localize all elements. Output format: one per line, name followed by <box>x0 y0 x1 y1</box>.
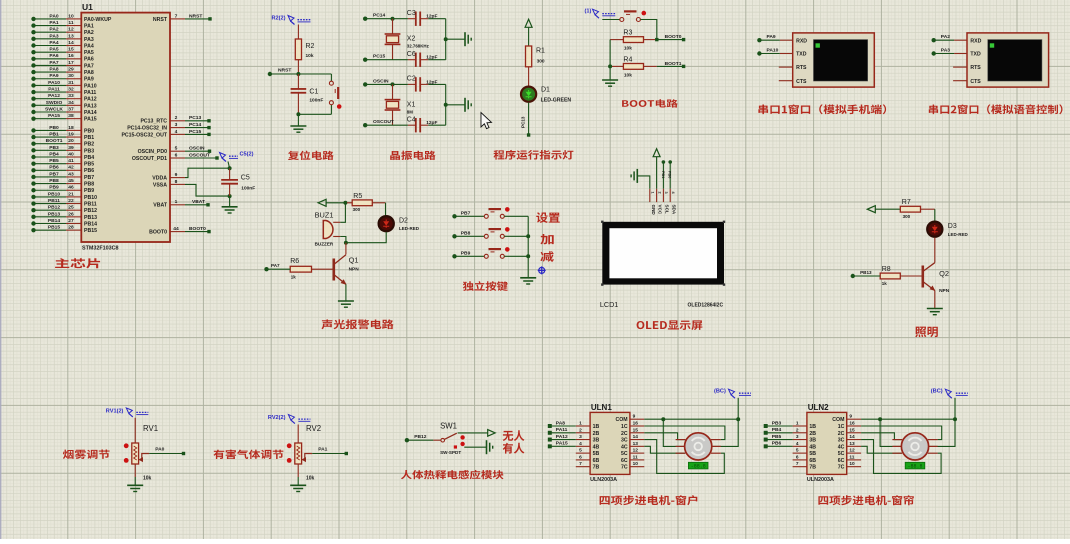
wire PB4 <box>766 432 793 434</box>
svg-text:PC15-OSC32_OUT: PC15-OSC32_OUT <box>121 132 167 138</box>
pin 44 BOOT0 <box>170 231 185 233</box>
svg-text:38: 38 <box>68 113 74 119</box>
wire PB6 <box>766 445 793 447</box>
svg-text:PA12: PA12 <box>84 97 97 103</box>
svg-text:NRST: NRST <box>278 68 291 74</box>
svg-text:OSCIN_PD0: OSCIN_PD0 <box>138 149 168 155</box>
wire 2C to motor <box>861 433 902 440</box>
wire SW1 person to ground <box>464 446 486 448</box>
svg-text:OSCOUT_PD1: OSCOUT_PD1 <box>132 156 167 162</box>
svg-text:PB9: PB9 <box>49 185 59 191</box>
blue origin marker <box>539 267 545 273</box>
resistor R2 <box>297 25 299 40</box>
diode D1 LED-GREEN <box>521 87 536 102</box>
svg-text:C1: C1 <box>309 89 318 96</box>
blue wire label C5(2) <box>220 153 226 159</box>
label 晶振电路 <box>390 151 435 160</box>
wire PA15 <box>550 445 576 447</box>
wire PA8 <box>550 425 576 427</box>
wire + node PA5 (pin 15) <box>31 50 35 54</box>
wire BC to COM <box>954 398 956 419</box>
wire + node PB0 (pin 18) <box>31 128 35 132</box>
wire PA9 <box>757 38 761 42</box>
svg-text:ULN1: ULN1 <box>591 403 612 412</box>
svg-text:RV1(2): RV1(2) <box>106 408 124 414</box>
wire BOOT0 <box>185 231 209 233</box>
svg-text:45: 45 <box>68 178 74 184</box>
ground (rotated right) <box>464 32 466 46</box>
svg-text:40: 40 <box>68 151 74 157</box>
svg-text:BUZ1: BUZ1 <box>315 211 334 220</box>
svg-text:3: 3 <box>664 192 668 194</box>
svg-text:R6: R6 <box>290 258 299 265</box>
svg-text:37: 37 <box>68 106 74 112</box>
svg-text:300: 300 <box>903 214 911 219</box>
ULN2 pin 12 (right) <box>847 452 861 454</box>
svg-text:21: 21 <box>68 191 74 197</box>
ground (keys) <box>520 277 536 279</box>
svg-text:U1: U1 <box>82 2 93 12</box>
label 声光报警电路 <box>321 319 393 329</box>
wire COM right to motor <box>712 419 739 446</box>
svg-text:OLED12864I2C: OLED12864I2C <box>688 303 724 309</box>
svg-text:PB10: PB10 <box>48 191 61 197</box>
svg-text:3B: 3B <box>809 438 816 444</box>
node terminal PC15 <box>363 58 367 62</box>
ULN1 pin 14 (right) <box>630 439 644 441</box>
svg-text:1: 1 <box>579 421 582 427</box>
button PB7 red dot <box>505 207 510 212</box>
wire + node PA10 (pin 31) <box>31 83 35 87</box>
svg-text:PA1: PA1 <box>84 23 94 29</box>
svg-text:LED-RED: LED-RED <box>948 232 969 237</box>
svg-text:PA5: PA5 <box>49 47 58 53</box>
svg-text:BOOT0: BOOT0 <box>665 34 682 40</box>
wire COM left to motor <box>663 419 685 446</box>
svg-text:4B: 4B <box>809 444 816 450</box>
label 有人 <box>503 443 525 454</box>
svg-text:PB11: PB11 <box>84 201 97 207</box>
svg-text:17: 17 <box>68 60 74 66</box>
node terminal PB7 <box>452 214 456 218</box>
svg-text:5C: 5C <box>838 451 845 457</box>
SW1 red dot bottom <box>460 442 464 446</box>
svg-text:-88.8: -88.8 <box>691 464 706 470</box>
label 加 <box>540 234 553 244</box>
svg-text:300: 300 <box>537 59 545 65</box>
node terminal BOOT0 <box>682 38 685 41</box>
svg-text:2: 2 <box>657 192 661 194</box>
svg-text:VDDA: VDDA <box>152 176 167 182</box>
svg-text:12pF: 12pF <box>426 79 437 85</box>
svg-text:D1: D1 <box>541 87 550 94</box>
svg-text:X2: X2 <box>407 36 416 43</box>
svg-text:PA8: PA8 <box>556 420 565 426</box>
wire + node PA6 (pin 16) <box>31 57 35 61</box>
wire COM supply <box>861 418 955 420</box>
svg-text:PC14: PC14 <box>373 13 386 19</box>
svg-text:PB7: PB7 <box>84 175 94 181</box>
svg-text:PB6: PB6 <box>84 168 94 174</box>
RV1 red dot up <box>124 443 129 448</box>
svg-text:16: 16 <box>68 53 74 59</box>
wire + node PA12 (pin 33) <box>31 97 35 101</box>
wire keys bus <box>527 216 529 277</box>
wire PA11 <box>550 432 576 434</box>
svg-text:13: 13 <box>849 441 855 447</box>
label 独立按键 <box>463 281 508 291</box>
ground (rotated right) <box>464 98 466 112</box>
ULN1 pin 3 (left) <box>576 439 590 441</box>
svg-text:3B: 3B <box>593 438 600 444</box>
ULN2 pin 10 (right) <box>847 466 861 468</box>
stepper motor angle display <box>688 462 708 469</box>
ULN2 pin 7 (left) <box>793 466 807 468</box>
svg-text:19: 19 <box>68 131 74 137</box>
svg-text:PA14: PA14 <box>84 110 97 116</box>
svg-text:COM: COM <box>615 417 627 423</box>
label 四项步进电机-窗户 <box>600 495 698 505</box>
wire OSCOUT_PD1 <box>185 157 217 159</box>
resistor R8 <box>880 273 900 279</box>
node junction COM left <box>878 417 882 421</box>
wire R1 to D1 <box>528 67 530 86</box>
pin 2 PC13_RTC <box>170 120 185 122</box>
pin RTS stub <box>953 66 967 68</box>
svg-text:3: 3 <box>796 434 799 440</box>
svg-text:1B: 1B <box>593 424 600 430</box>
wire PC14 row <box>365 18 408 20</box>
svg-text:14: 14 <box>68 40 74 46</box>
svg-text:R3: R3 <box>623 30 632 37</box>
svg-text:5B: 5B <box>809 451 816 457</box>
node terminal PB4 <box>764 431 768 435</box>
svg-text:PA6: PA6 <box>49 53 58 59</box>
capacitor C6 <box>415 53 417 67</box>
svg-text:9: 9 <box>175 172 178 178</box>
node junction R5 left <box>343 201 347 205</box>
wire + node PA4 (pin 14) <box>31 43 35 47</box>
label OLED显示屏 <box>637 320 703 330</box>
resistor R6 <box>290 266 311 272</box>
crystal X2 <box>392 19 394 34</box>
svg-text:4: 4 <box>796 441 799 447</box>
svg-text:RXD: RXD <box>796 38 807 44</box>
svg-text:3: 3 <box>175 122 178 128</box>
label 设置 <box>536 212 560 223</box>
wire PA12 <box>550 439 576 441</box>
transistor Q2 <box>923 263 935 272</box>
svg-text:SW1: SW1 <box>440 422 457 431</box>
svg-text:15: 15 <box>68 47 74 53</box>
svg-text:VBAT: VBAT <box>153 203 168 209</box>
RV1 bottom lead <box>134 464 136 477</box>
svg-text:6B: 6B <box>809 458 816 464</box>
diode D2 LED-RED <box>379 216 394 231</box>
wire left bus R3-R4 <box>609 40 611 80</box>
wire 1C to motor <box>861 426 942 440</box>
mouse cursor <box>481 113 492 129</box>
stepper motor angle display <box>905 462 925 469</box>
svg-text:X1: X1 <box>407 101 416 108</box>
svg-text:C3: C3 <box>407 10 416 17</box>
svg-text:12pF: 12pF <box>426 120 437 126</box>
svg-text:PA0: PA0 <box>155 447 164 453</box>
node terminal PB3 <box>764 424 768 428</box>
svg-text:R2(2): R2(2) <box>272 15 286 21</box>
wire COM supply <box>644 418 738 420</box>
svg-text:16: 16 <box>849 421 855 427</box>
wire arrow to R5 <box>326 202 347 204</box>
svg-text:VBAT: VBAT <box>192 199 205 205</box>
svg-text:11: 11 <box>68 20 73 26</box>
wire right vertical <box>445 84 447 125</box>
svg-text:PA10: PA10 <box>84 83 97 89</box>
wire BOOT0 <box>657 39 684 41</box>
svg-text:GND: GND <box>651 205 656 216</box>
svg-text:6B: 6B <box>593 458 600 464</box>
virtual terminal body <box>967 33 1049 87</box>
node terminal OSCOUT <box>363 123 367 127</box>
svg-text:PB15: PB15 <box>84 228 97 234</box>
resistor R4 <box>610 65 623 67</box>
node terminal PC14 <box>363 17 367 21</box>
ULN2 pin 16 (right) <box>847 425 861 427</box>
svg-text:2: 2 <box>796 427 799 433</box>
svg-text:PA10: PA10 <box>767 48 779 54</box>
ground (SW1, rotated right) <box>486 440 488 454</box>
capacitor C4 <box>415 118 417 132</box>
label 复位电路 <box>288 151 334 160</box>
svg-text:BOOT1: BOOT1 <box>46 138 63 144</box>
node NRST terminal <box>268 72 272 76</box>
wire + node PB6 (pin 42) <box>31 168 35 172</box>
svg-text:1C: 1C <box>621 424 628 430</box>
svg-text:NPN: NPN <box>349 267 360 273</box>
wire + node PB7 (pin 43) <box>31 175 35 179</box>
wire + node PA3 (pin 13) <box>31 37 35 41</box>
wire PC13_RTC <box>185 120 209 122</box>
svg-text:2C: 2C <box>621 431 628 437</box>
ULN1 pin 4 (left) <box>576 445 590 447</box>
ULN2 pin 3 (left) <box>793 439 807 441</box>
svg-text:RV2(2): RV2(2) <box>268 415 286 421</box>
terminal screen <box>814 40 868 81</box>
svg-text:PA11: PA11 <box>556 427 568 433</box>
wire button right to R3 <box>640 20 656 40</box>
pin 3 PC14-OSC32_IN <box>170 127 185 129</box>
svg-text:1: 1 <box>651 192 655 194</box>
svg-text:LED-GREEN: LED-GREEN <box>541 97 572 103</box>
svg-text:PA12: PA12 <box>48 93 60 99</box>
svg-text:PA1: PA1 <box>318 447 327 453</box>
svg-text:5: 5 <box>175 146 178 152</box>
svg-text:PB13: PB13 <box>860 270 872 275</box>
wire key PB7 to bus <box>504 215 528 217</box>
svg-text:PB1: PB1 <box>84 135 94 141</box>
resistor R1 <box>526 46 532 67</box>
svg-text:7: 7 <box>579 461 582 467</box>
wire + node PB13 (pin 26) <box>31 215 35 219</box>
svg-text:R1: R1 <box>536 48 545 55</box>
wire OSCIN row <box>365 83 408 85</box>
RV2 red dot up <box>287 443 292 448</box>
ULN2 pin 11 (right) <box>847 459 861 461</box>
svg-text:PA8: PA8 <box>49 67 58 73</box>
svg-text:7B: 7B <box>809 465 816 471</box>
svg-text:OSCIN: OSCIN <box>189 146 205 152</box>
pin 1 VBAT <box>170 204 185 206</box>
svg-text:CTS: CTS <box>796 79 807 85</box>
wire C5 to ground <box>229 196 231 207</box>
node junction X2 top <box>391 17 395 21</box>
svg-text:R5: R5 <box>353 193 362 200</box>
svg-text:PA8: PA8 <box>84 70 94 76</box>
wire + node PB3 (pin 39) <box>31 148 35 152</box>
svg-text:RXD: RXD <box>970 38 981 44</box>
svg-text:5C: 5C <box>621 451 628 457</box>
svg-text:300: 300 <box>353 207 361 212</box>
resistor R7 <box>900 206 920 212</box>
svg-text:100nF: 100nF <box>241 186 255 192</box>
RV1 red dot down <box>124 458 129 463</box>
svg-text:PB5: PB5 <box>84 162 94 168</box>
svg-text:PA2: PA2 <box>941 34 950 40</box>
label 人体热释电感应模块 <box>401 470 504 479</box>
node SDA dot <box>668 160 672 164</box>
terminal screen <box>988 40 1042 81</box>
svg-text:PB4: PB4 <box>84 155 94 161</box>
ULN1 pin 7 (left) <box>576 466 590 468</box>
svg-text:PC13_RTC: PC13_RTC <box>140 119 167 125</box>
wire + node PB10 (pin 21) <box>31 195 35 199</box>
button PB9 <box>483 255 485 257</box>
ULN1 pin 13 (right) <box>630 445 644 447</box>
wire + node PA9 (pin 30) <box>31 77 35 81</box>
svg-text:32.768KHz: 32.768KHz <box>407 44 430 49</box>
node junction R2/C1 <box>296 72 300 76</box>
wire key PB9 to bus <box>504 255 528 257</box>
wire D2 bottom row <box>346 232 386 243</box>
buzzer pins <box>333 221 340 223</box>
svg-text:39: 39 <box>68 145 74 151</box>
wire + node BOOT1 (pin 20) <box>31 142 35 146</box>
button reset <box>330 74 332 81</box>
svg-text:34: 34 <box>68 100 74 106</box>
svg-text:PB12: PB12 <box>414 434 427 440</box>
svg-text:PA9: PA9 <box>84 77 94 83</box>
svg-text:1: 1 <box>175 199 178 205</box>
svg-text:PB7: PB7 <box>49 171 59 177</box>
node terminal PB13 <box>851 274 855 278</box>
wire + node PA8 (pin 29) <box>31 70 35 74</box>
RV2 wiper <box>301 457 306 462</box>
RV2 bottom lead <box>297 464 299 477</box>
ground (reset) <box>290 125 306 127</box>
wire NRST <box>185 18 210 20</box>
wire PA2 <box>932 38 936 42</box>
svg-text:PA7: PA7 <box>49 60 58 66</box>
svg-text:12pF: 12pF <box>426 14 437 20</box>
svg-text:1k: 1k <box>882 281 888 286</box>
wire PA7 <box>267 268 291 270</box>
svg-text:PA4: PA4 <box>84 43 94 49</box>
node terminal PA15 <box>548 444 552 448</box>
wire OSCOUT row <box>365 124 408 126</box>
wire key PB8 to bus <box>504 235 528 237</box>
svg-text:30: 30 <box>68 73 74 79</box>
svg-text:PB3: PB3 <box>49 145 59 151</box>
svg-text:TXD: TXD <box>970 52 981 58</box>
svg-text:10k: 10k <box>624 72 632 78</box>
svg-text:PB0: PB0 <box>668 171 672 178</box>
wire buzzer top to supply junction <box>340 203 345 223</box>
svg-text:14: 14 <box>633 434 639 440</box>
wire COM right to motor <box>928 419 955 446</box>
button BOOT <box>620 18 624 22</box>
svg-text:PA15: PA15 <box>84 117 97 123</box>
svg-text:STM32F103C8: STM32F103C8 <box>82 246 119 252</box>
svg-text:7B: 7B <box>593 465 600 471</box>
svg-text:C2: C2 <box>407 76 416 83</box>
wire 3C to motor loop <box>644 440 724 474</box>
svg-text:6: 6 <box>796 454 799 460</box>
node terminal PB9 <box>452 254 456 258</box>
ULN2 pin 6 (left) <box>793 459 807 461</box>
wire to ground <box>446 38 465 40</box>
label 烟雾调节 <box>63 450 110 460</box>
capacitor C3 <box>415 12 417 26</box>
SW1 red dot top <box>460 435 464 439</box>
button PB8 red dot <box>505 227 510 232</box>
ULN1 pin 12 (right) <box>630 452 644 454</box>
label 串口2窗口（模拟语音控制） <box>929 104 1063 114</box>
svg-text:20: 20 <box>68 138 74 144</box>
label 主芯片 <box>55 258 100 268</box>
pin TXD stub <box>954 53 967 55</box>
wire + node PB9 (pin 46) <box>31 188 35 192</box>
svg-text:8M: 8M <box>407 109 413 114</box>
node junction C5 top <box>228 166 232 170</box>
button PB7 <box>483 215 485 217</box>
ground (OLED, rotated left) <box>636 169 638 183</box>
wire + node PA1 (pin 11) <box>31 23 35 27</box>
svg-text:PA9: PA9 <box>767 34 776 40</box>
svg-text:32: 32 <box>68 86 74 92</box>
svg-text:PB6: PB6 <box>49 165 59 171</box>
svg-text:10: 10 <box>68 13 74 19</box>
svg-text:1k: 1k <box>291 274 297 279</box>
node junction right <box>444 103 448 107</box>
ground (BOOT) <box>602 79 618 81</box>
ULN2 pin 9 COM <box>847 418 861 420</box>
svg-text:SCL: SCL <box>665 205 670 214</box>
svg-text:CTS: CTS <box>970 79 981 85</box>
wire PC15 row <box>365 59 408 61</box>
ULN1 pin 9 COM <box>630 418 644 420</box>
wire BOOT1 <box>657 65 684 67</box>
wire PB12 <box>407 439 434 441</box>
power arrow (indicator) <box>525 19 532 27</box>
svg-text:ULN2003A: ULN2003A <box>807 477 834 483</box>
svg-text:46: 46 <box>68 185 74 191</box>
wire PB3 <box>766 425 793 427</box>
wire PA3 <box>932 51 936 55</box>
svg-text:R4: R4 <box>623 56 632 63</box>
ULN2 pin 13 (right) <box>847 445 861 447</box>
capacitor C2 <box>415 77 417 91</box>
svg-text:SWCLK: SWCLK <box>45 106 63 112</box>
